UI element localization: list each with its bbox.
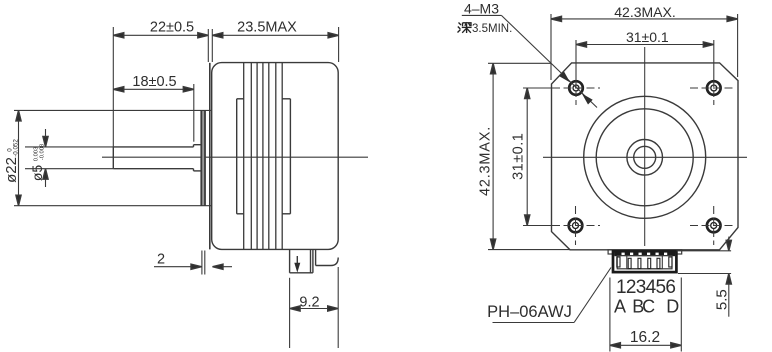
shaft shoulder step	[194, 145, 202, 171]
connector center key box	[627, 256, 663, 269]
callout leader line	[501, 15, 597, 107]
svg-text:-0.008: -0.008	[40, 144, 46, 160]
svg-text:16.2: 16.2	[630, 329, 660, 346]
callout leader arrowheads	[559, 72, 592, 105]
front face square with chamfered corners	[552, 63, 739, 250]
dim 42.3MAX left text (rotated)	[478, 126, 494, 196]
center axis line (side view)	[102, 156, 368, 158]
mounting hole top-left	[552, 80, 600, 105]
motor body outline	[212, 63, 339, 250]
dim 5.5 extension lines	[677, 251, 732, 274]
shaft circle phi5	[634, 146, 656, 168]
rear bottom hook lip	[316, 249, 339, 265]
dim 2 arrows	[154, 264, 232, 269]
svg-text:-0.052: -0.052	[13, 139, 20, 157]
dim 18+-0.5 extension line	[193, 84, 195, 142]
boss top/bottom extension edges	[14, 110, 212, 205]
svg-text:22±0.5: 22±0.5	[150, 20, 194, 36]
svg-text:5.5: 5.5	[714, 289, 731, 310]
dim 16.2 extension lines	[610, 278, 681, 352]
svg-text:23.5MAX: 23.5MAX	[237, 20, 297, 36]
dim 42.3MAX top extension lines	[551, 14, 738, 80]
stack middle bulge	[237, 99, 291, 214]
callout depth glyph (shen)	[458, 22, 472, 33]
connector side clips	[617, 257, 672, 267]
dim 9.2 line	[290, 306, 339, 311]
dim phi22 text (rotated)	[3, 139, 20, 183]
connector tab (side view)	[290, 249, 313, 272]
svg-text:123456: 123456	[616, 277, 676, 298]
dim 18+-0.5 line	[113, 87, 194, 92]
svg-text:31±0.1: 31±0.1	[511, 133, 527, 180]
dim 23.5MAX extension lines	[212, 27, 338, 62]
svg-text:3.5MIN.: 3.5MIN.	[472, 23, 512, 35]
motor mounting face line	[209, 63, 211, 250]
dim 16.2 line	[610, 343, 681, 348]
callout underline	[462, 14, 502, 16]
svg-text:A: A	[614, 297, 626, 317]
dim 31+-0.1 left extension lines	[523, 88, 560, 226]
shaft phi5 outline	[113, 147, 193, 169]
svg-text:42.3MAX.: 42.3MAX.	[478, 126, 494, 196]
dim 5.5 text (rotated)	[714, 289, 731, 310]
pilot boss phi22 (2mm plate)	[201, 110, 205, 205]
pilot boss circle phi22	[596, 109, 693, 206]
connector pin bars	[628, 258, 660, 268]
phase label A BC D	[614, 297, 679, 317]
mounting hole bottom-right	[690, 206, 734, 245]
dim 42.3MAX left extension lines	[488, 63, 570, 249]
dim phi5 arrows	[43, 129, 48, 187]
lamination stack lines	[244, 63, 283, 250]
svg-text:ø5: ø5	[29, 165, 45, 182]
label leader line	[574, 268, 611, 323]
svg-text:C: C	[642, 297, 655, 317]
connector body (front, thick)	[613, 251, 676, 272]
svg-text:9.2: 9.2	[299, 294, 319, 310]
dim 31+-0.1 top extension lines	[576, 40, 714, 80]
svg-text:PH–06AWJ: PH–06AWJ	[487, 303, 572, 321]
dim 42.3MAX left line	[491, 63, 496, 249]
svg-text:D: D	[666, 297, 679, 317]
svg-text:18±0.5: 18±0.5	[132, 74, 176, 90]
dim phi22 tolerance vertical line with arrows	[16, 110, 21, 205]
label underline	[493, 322, 575, 324]
dim phi5 extension lines	[25, 147, 113, 169]
svg-text:31±0.1: 31±0.1	[626, 29, 669, 45]
connector base lip (front)	[608, 250, 682, 254]
dim 42.3MAX top line	[551, 16, 738, 21]
dim 9.2 extension lines	[290, 267, 339, 348]
svg-text:2: 2	[157, 252, 165, 268]
dim 22+-0.5 extension lines	[113, 27, 208, 147]
connector inner outline	[617, 256, 672, 269]
dim 2 extension lines	[202, 251, 205, 275]
dim 31+-0.1 left line	[525, 88, 530, 226]
svg-text:4–M3: 4–M3	[464, 1, 499, 17]
arrow pointing down inside tab	[294, 256, 300, 273]
dim phi5 text (rotated)	[29, 144, 46, 181]
dim 22+-0.5 line	[113, 33, 208, 38]
front view center lines	[543, 47, 747, 246]
svg-text:ø22: ø22	[3, 157, 20, 183]
mounting hole top-right	[690, 80, 734, 105]
dim 31+-0.1 top line	[576, 42, 714, 47]
connector top band with pin slots	[614, 252, 675, 256]
svg-text:42.3MAX.: 42.3MAX.	[614, 4, 675, 20]
dim 31+-0.1 left text (rotated)	[511, 133, 527, 180]
dim 5.5 arrows	[726, 237, 731, 317]
mounting hole bottom-left	[552, 206, 600, 245]
dim 23.5MAX line	[212, 33, 338, 38]
shaft hub ring	[627, 140, 663, 176]
outer face circle	[584, 96, 706, 218]
